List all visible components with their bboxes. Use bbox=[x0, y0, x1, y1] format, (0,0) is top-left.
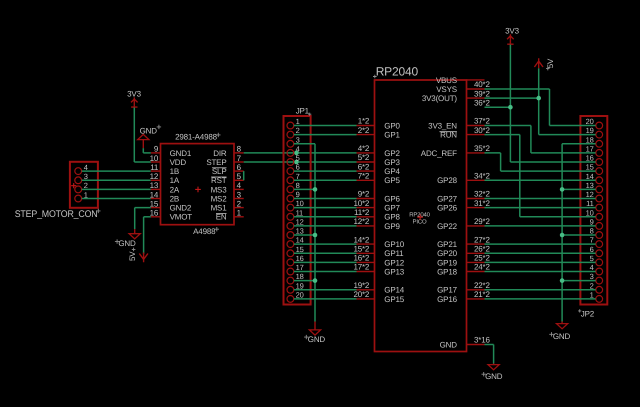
RP2040 pin GP16 bbox=[437, 295, 484, 304]
junction net 39*2 at 5V arrow bbox=[536, 96, 541, 101]
svg-text:2*2: 2*2 bbox=[358, 126, 370, 135]
svg-text:GP28: GP28 bbox=[437, 176, 457, 185]
JP1 pin 13 bbox=[287, 227, 304, 239]
svg-text:9: 9 bbox=[154, 145, 159, 154]
wire net 7*2 JP1 pin 7 to RP2040 bbox=[294, 179, 357, 181]
ground GND symbol (lower left) bbox=[115, 229, 140, 248]
svg-text:5: 5 bbox=[237, 172, 242, 181]
JP1 pin 9 bbox=[287, 190, 300, 202]
svg-text:17*2: 17*2 bbox=[353, 263, 369, 272]
JP1 pin 12 bbox=[287, 218, 304, 230]
A4988 pin 3 MS2 bbox=[211, 190, 244, 203]
svg-text:8: 8 bbox=[237, 145, 242, 154]
svg-text:VDD: VDD bbox=[170, 158, 187, 167]
svg-text:1*2: 1*2 bbox=[358, 117, 370, 126]
svg-text:4: 4 bbox=[237, 181, 242, 190]
svg-text:10: 10 bbox=[150, 154, 159, 163]
wire net 20*2 JP1 pin 20 to RP2040 bbox=[294, 298, 357, 300]
JP2 pin 14 bbox=[586, 172, 603, 184]
svg-text:14*2: 14*2 bbox=[353, 235, 369, 244]
svg-text:14: 14 bbox=[150, 190, 159, 199]
RP2040 pin GP14 bbox=[357, 286, 405, 295]
wire net 26*2 RP2040 to JP2 pin 6 bbox=[485, 252, 596, 254]
ground GND symbol (upper left) bbox=[138, 125, 161, 149]
RP2040 pin GP11 bbox=[357, 249, 405, 258]
RP2040 pin GP0 bbox=[357, 121, 401, 130]
JP2 body bbox=[580, 116, 607, 305]
svg-text:11: 11 bbox=[296, 208, 303, 217]
wire tie A4988 SLP-RST bbox=[243, 171, 245, 180]
wire net 22*2 RP2040 to JP2 pin 2 bbox=[485, 289, 596, 291]
RP2040 pin GP21 bbox=[437, 240, 484, 249]
wire net 30*2 RP2040 RUN to JP2 pin 10 bbox=[485, 135, 596, 217]
svg-text:GP9: GP9 bbox=[384, 222, 400, 231]
svg-text:40*2: 40*2 bbox=[474, 80, 490, 89]
power 3V3 supply (right) bbox=[505, 27, 519, 45]
svg-text:15*2: 15*2 bbox=[353, 245, 369, 254]
svg-text:11*2: 11*2 bbox=[354, 208, 370, 217]
wire net 17*2 JP1 pin 17 to RP2040 bbox=[294, 271, 357, 273]
junction JP1 gnd at pin 18 bbox=[313, 278, 318, 283]
svg-text:GP22: GP22 bbox=[437, 222, 457, 231]
svg-text:STEP: STEP bbox=[206, 158, 226, 167]
wire 3V3 to A4988 VDD bbox=[134, 108, 151, 163]
svg-text:RST: RST bbox=[211, 176, 227, 185]
svg-text:GND: GND bbox=[140, 127, 158, 136]
svg-text:GP18: GP18 bbox=[437, 267, 457, 276]
svg-text:25*2: 25*2 bbox=[474, 254, 490, 263]
svg-text:11: 11 bbox=[586, 199, 593, 208]
JP2 pin 1 bbox=[590, 291, 603, 303]
JP2 name bbox=[578, 309, 595, 318]
svg-text:19*2: 19*2 bbox=[353, 281, 369, 290]
svg-text:15: 15 bbox=[150, 199, 159, 208]
junction JP2 gnd at pin 3 bbox=[560, 278, 565, 283]
RP2040 pin GP2 bbox=[357, 149, 401, 158]
svg-text:3V3: 3V3 bbox=[505, 27, 519, 36]
JP2 pin 4 bbox=[590, 263, 603, 275]
wire net 40*2 RP2040 VBUS to JP2 pin 20 bbox=[485, 89, 596, 126]
A4988 pin 8 DIR bbox=[213, 145, 243, 158]
STEP_MOTOR_CON pin 1 bbox=[75, 190, 88, 202]
ground GND symbol below RP2040 bbox=[482, 364, 503, 381]
wire net 19*2 JP1 pin 19 to RP2040 bbox=[294, 289, 357, 291]
svg-text:3*16: 3*16 bbox=[474, 336, 490, 345]
svg-text:GP7: GP7 bbox=[384, 204, 400, 213]
wire net 3*16 RP2040 GND to ground bbox=[485, 345, 494, 364]
RP2040 name bbox=[373, 65, 418, 79]
svg-text:13: 13 bbox=[150, 181, 159, 190]
JP1 pin 4 bbox=[287, 145, 300, 157]
JP1 name bbox=[296, 107, 312, 116]
svg-text:STEP_MOTOR_CON: STEP_MOTOR_CON bbox=[15, 209, 98, 220]
svg-text:GP10: GP10 bbox=[384, 240, 404, 249]
JP2 pin 2 bbox=[590, 281, 603, 293]
svg-text:39*2: 39*2 bbox=[474, 89, 490, 98]
svg-text:12*2: 12*2 bbox=[353, 217, 369, 226]
junction JP1 gnd at pin 13 bbox=[313, 233, 318, 238]
svg-text:SLP: SLP bbox=[212, 167, 227, 176]
svg-text:MS1: MS1 bbox=[211, 204, 228, 213]
svg-text:GP6: GP6 bbox=[384, 194, 400, 203]
JP1 pin 16 bbox=[287, 254, 304, 266]
svg-text:GP2: GP2 bbox=[384, 149, 400, 158]
JP1 pin 2 bbox=[287, 126, 300, 138]
wire STEP_MOTOR_CON pin 2 to A4988 2A bbox=[82, 188, 151, 190]
RP2040 pin GP20 bbox=[437, 249, 484, 258]
svg-text:JP2: JP2 bbox=[581, 310, 595, 319]
RP2040 pin GP15 bbox=[357, 295, 405, 304]
wire net 34*2 RP2040 to JP2 pin 14 bbox=[485, 179, 596, 181]
JP2 pin 3 bbox=[590, 272, 603, 284]
JP2 pin 9 bbox=[590, 218, 603, 230]
wire net 27*2 RP2040 to JP2 pin 7 bbox=[485, 243, 596, 245]
svg-text:6: 6 bbox=[590, 245, 594, 254]
wire A4988 VMOT to 5V bbox=[144, 217, 151, 254]
svg-text:6*2: 6*2 bbox=[358, 162, 370, 171]
svg-text:GP19: GP19 bbox=[437, 258, 457, 267]
wire net 9*2 JP1 pin 9 to RP2040 bbox=[294, 198, 357, 200]
power 5V supply (lower left) bbox=[128, 248, 148, 263]
RP2040 pin GP7 bbox=[357, 204, 401, 213]
svg-text:3V3(OUT): 3V3(OUT) bbox=[422, 94, 458, 103]
svg-text:10: 10 bbox=[296, 199, 304, 208]
junction net 36*2 at 3V3 arrow bbox=[508, 105, 513, 110]
STEP_MOTOR_CON pin 2 bbox=[75, 181, 88, 193]
junction JP2 gnd at pin 13 bbox=[560, 187, 565, 192]
svg-text:9*2: 9*2 bbox=[358, 190, 370, 199]
svg-text:36*2: 36*2 bbox=[474, 98, 490, 107]
svg-text:DIR: DIR bbox=[213, 149, 227, 158]
STEP_MOTOR_CON pin 3 bbox=[75, 172, 88, 184]
RP2040 origin cross bbox=[409, 212, 430, 226]
svg-text:21*2: 21*2 bbox=[474, 290, 490, 299]
RP2040 pin GP18 bbox=[437, 267, 484, 276]
JP2 pin 5 bbox=[590, 254, 603, 266]
A4988 pin 2 MS1 bbox=[211, 199, 244, 212]
A4988 origin cross bbox=[195, 187, 201, 193]
svg-text:2981-A4988: 2981-A4988 bbox=[175, 133, 218, 142]
svg-text:1B: 1B bbox=[170, 167, 179, 176]
A4988 name 2981-A4988 bbox=[175, 133, 220, 142]
JP2 pin 16 bbox=[586, 154, 603, 166]
wire net 25*2 RP2040 to JP2 pin 5 bbox=[485, 261, 596, 263]
power 5V supply (right) bbox=[534, 58, 555, 70]
svg-text:GP8: GP8 bbox=[384, 213, 400, 222]
A4988 pin 5 RST bbox=[211, 172, 244, 185]
svg-text:2B: 2B bbox=[170, 194, 179, 203]
svg-text:18: 18 bbox=[586, 135, 594, 144]
svg-text:20*2: 20*2 bbox=[353, 290, 369, 299]
svg-text:GND: GND bbox=[308, 335, 326, 344]
IC U1 A4988 stepper driver bbox=[150, 133, 244, 236]
JP2 pin 8 bbox=[590, 227, 603, 239]
RP2040 pin GP3 bbox=[357, 158, 401, 167]
svg-text:GND1: GND1 bbox=[170, 149, 192, 158]
svg-text:2: 2 bbox=[296, 126, 300, 135]
svg-text:GND: GND bbox=[553, 332, 571, 341]
RP2040 pin GP13 bbox=[357, 267, 405, 276]
svg-text:VMOT: VMOT bbox=[170, 213, 193, 222]
wire net 32*2 RP2040 to JP2 pin 12 bbox=[485, 198, 596, 200]
svg-text:30*2: 30*2 bbox=[474, 126, 490, 135]
wire net 39*2 RP2040 VSYS to JP2 pin 19 and 5V bbox=[485, 68, 596, 134]
JP1 pin 1 bbox=[287, 117, 300, 129]
wire net 31*2 RP2040 to JP2 pin 11 bbox=[485, 207, 596, 209]
label STEP_MOTOR_CON bbox=[15, 209, 101, 220]
svg-text:GP27: GP27 bbox=[437, 194, 457, 203]
JP1 pin 11 bbox=[287, 208, 303, 220]
A4988 pin 15 GND2 bbox=[150, 199, 192, 212]
A4988 value A4988 bbox=[193, 227, 219, 236]
svg-text:ADC_REF: ADC_REF bbox=[421, 149, 457, 158]
JP2 pin 19 bbox=[586, 126, 603, 138]
wire net 36*2 RP2040 3V3(OUT) to JP2 pin 16 and 3V3 bbox=[485, 45, 596, 162]
wire net 1*2 JP1 pin 1 to RP2040 bbox=[294, 125, 357, 127]
wire net 29*2 RP2040 to JP2 pin 9 bbox=[485, 225, 596, 227]
A4988 pin 1 EN bbox=[216, 209, 244, 222]
svg-text:GP4: GP4 bbox=[384, 167, 400, 176]
svg-text:MS2: MS2 bbox=[211, 194, 228, 203]
RP2040 pin RUN bbox=[440, 131, 485, 140]
svg-text:16: 16 bbox=[150, 209, 159, 218]
svg-text:GND: GND bbox=[118, 239, 136, 248]
svg-text:5: 5 bbox=[296, 154, 300, 163]
JP1 pin 20 bbox=[287, 291, 304, 303]
svg-text:16*2: 16*2 bbox=[353, 254, 369, 263]
RP2040 pin GP22 bbox=[437, 222, 484, 231]
svg-text:3: 3 bbox=[296, 135, 300, 144]
svg-text:GND: GND bbox=[440, 340, 458, 349]
JP2 pin 20 bbox=[586, 117, 603, 129]
svg-text:6: 6 bbox=[296, 163, 300, 172]
wire net 10*2 JP1 pin 10 to RP2040 bbox=[294, 207, 357, 209]
power 3V3 supply (left) bbox=[127, 90, 141, 108]
svg-text:3V3_EN: 3V3_EN bbox=[428, 121, 457, 130]
svg-text:VBUS: VBUS bbox=[436, 76, 457, 85]
connector STEP_MOTOR_CON bbox=[15, 162, 101, 220]
svg-text:27*2: 27*2 bbox=[474, 235, 490, 244]
svg-text:GND: GND bbox=[485, 372, 503, 381]
wire net 6*2 JP1 pin 6 to RP2040 bbox=[294, 170, 357, 172]
JP2 pin 18 bbox=[586, 135, 603, 147]
svg-text:GP3: GP3 bbox=[384, 158, 400, 167]
svg-text:1A: 1A bbox=[170, 176, 180, 185]
wire STEP_MOTOR_CON pin 1 to A4988 2B bbox=[82, 198, 151, 200]
wire net 11*2 JP1 pin 11 to RP2040 bbox=[294, 216, 357, 218]
svg-text:GP0: GP0 bbox=[384, 121, 400, 130]
svg-text:7*2: 7*2 bbox=[358, 172, 370, 181]
IC U2 RP2040 Pico module bbox=[357, 65, 485, 352]
svg-text:10*2: 10*2 bbox=[353, 199, 369, 208]
svg-text:GP16: GP16 bbox=[437, 295, 457, 304]
wire JP2 ground bus bbox=[562, 144, 596, 322]
svg-text:GP26: GP26 bbox=[437, 204, 457, 213]
JP1 pin 18 bbox=[287, 272, 304, 284]
svg-text:7: 7 bbox=[296, 172, 300, 181]
ground GND symbol below JP1 bbox=[304, 322, 325, 344]
svg-text:MS3: MS3 bbox=[211, 185, 228, 194]
svg-text:7: 7 bbox=[590, 236, 594, 245]
junction on net 5*2 at JP1 pin 5 bbox=[294, 160, 299, 165]
svg-text:31*2: 31*2 bbox=[474, 199, 490, 208]
svg-text:29*2: 29*2 bbox=[474, 217, 490, 226]
svg-text:2: 2 bbox=[237, 199, 242, 208]
svg-text:RP2040: RP2040 bbox=[376, 65, 419, 79]
wire GND to A4988 GND1 bbox=[143, 148, 151, 153]
RP2040 pin VBUS bbox=[436, 76, 485, 85]
A4988 body bbox=[161, 144, 235, 225]
svg-text:GP14: GP14 bbox=[384, 286, 404, 295]
svg-text:EN: EN bbox=[216, 213, 227, 222]
svg-text:5V: 5V bbox=[546, 58, 555, 68]
svg-text:34*2: 34*2 bbox=[474, 172, 490, 181]
wire net 15*2 JP1 pin 15 to RP2040 bbox=[294, 252, 357, 254]
svg-text:1: 1 bbox=[237, 209, 242, 218]
wire STEP_MOTOR_CON pin 3 to A4988 1A bbox=[82, 179, 151, 181]
connector STEP_MOTOR_CON body bbox=[70, 162, 98, 208]
RP2040 pin GND bbox=[440, 340, 485, 349]
svg-text:14: 14 bbox=[586, 172, 594, 181]
svg-text:24*2: 24*2 bbox=[474, 263, 490, 272]
JP1 body bbox=[284, 116, 311, 305]
JP1 pin 7 bbox=[287, 172, 300, 184]
RP2040 pin GP19 bbox=[437, 258, 484, 267]
svg-text:10: 10 bbox=[586, 208, 594, 217]
svg-text:2A: 2A bbox=[170, 185, 180, 194]
svg-text:15: 15 bbox=[296, 245, 304, 254]
wire JP1 ground bus bbox=[294, 144, 315, 322]
wire net 12*2 JP1 pin 12 to RP2040 bbox=[294, 225, 357, 227]
ground GND symbol below JP2 bbox=[549, 322, 570, 342]
wire net 24*2 RP2040 to JP2 pin 4 bbox=[485, 271, 596, 273]
svg-text:VSYS: VSYS bbox=[436, 85, 457, 94]
RP2040 pin GP8 bbox=[357, 213, 401, 222]
svg-text:GP15: GP15 bbox=[384, 295, 404, 304]
svg-text:12: 12 bbox=[150, 172, 159, 181]
wire net 14*2 JP1 pin 14 to RP2040 bbox=[294, 243, 357, 245]
svg-text:GP5: GP5 bbox=[384, 176, 400, 185]
JP2 pin 13 bbox=[586, 181, 603, 193]
RP2040 pin GP26 bbox=[437, 204, 484, 213]
JP1 pin 3 bbox=[287, 135, 300, 147]
RP2040 pin GP6 bbox=[357, 194, 401, 203]
svg-text:22*2: 22*2 bbox=[474, 281, 490, 290]
RP2040 pin GP1 bbox=[357, 131, 401, 140]
JP2 pin 7 bbox=[590, 236, 603, 248]
svg-text:37*2: 37*2 bbox=[474, 117, 490, 126]
JP1 pin 19 bbox=[287, 281, 304, 293]
RP2040 pin 3V3_EN bbox=[428, 121, 484, 130]
svg-text:4*2: 4*2 bbox=[358, 144, 370, 153]
wire net 21*2 RP2040 to JP2 pin 1 bbox=[485, 298, 596, 300]
A4988 pin 13 2A bbox=[150, 181, 180, 194]
connector JP1 bbox=[284, 107, 312, 305]
svg-text:26*2: 26*2 bbox=[474, 245, 490, 254]
RP2040 pin GP28 bbox=[437, 176, 484, 185]
A4988 pin 11 1B bbox=[150, 163, 179, 176]
wire net 16*2 JP1 pin 16 to RP2040 bbox=[294, 261, 357, 263]
JP1 pin 5 bbox=[287, 154, 300, 166]
RP2040 pin 3V3(OUT) bbox=[422, 94, 485, 103]
RP2040 pin VSYS bbox=[436, 85, 484, 94]
RP2040 pin GP5 bbox=[357, 176, 401, 185]
RP2040 pin GP17 bbox=[437, 286, 484, 295]
connector JP2 bbox=[578, 116, 607, 319]
svg-text:GP12: GP12 bbox=[384, 258, 404, 267]
RP2040 pin GP12 bbox=[357, 258, 405, 267]
A4988 pin 16 VMOT bbox=[150, 209, 193, 222]
junction JP1 gnd at pin 8 bbox=[313, 187, 318, 192]
svg-text:GP21: GP21 bbox=[437, 240, 457, 249]
JP2 pin 10 bbox=[586, 208, 603, 220]
junction on net 4*2 at JP1 pin 4 bbox=[294, 151, 299, 156]
svg-text:A4988: A4988 bbox=[193, 227, 216, 236]
wire net 5*2 A4988 STEP to JP1 pin5 / RP2040 GP3 bbox=[244, 161, 357, 163]
svg-text:5*2: 5*2 bbox=[358, 153, 370, 162]
junction JP2 gnd at pin 8 bbox=[560, 233, 565, 238]
A4988 pin 14 2B bbox=[150, 190, 179, 203]
JP2 pin 12 bbox=[586, 190, 603, 202]
JP1 pin 17 bbox=[287, 263, 304, 275]
JP1 pin 14 bbox=[287, 236, 304, 248]
RP2040 pin ADC_REF bbox=[421, 149, 485, 158]
svg-text:32*2: 32*2 bbox=[474, 190, 490, 199]
JP2 pin 6 bbox=[590, 245, 603, 257]
wire net 4*2 A4988 DIR to JP1 pin4 / RP2040 GP2 bbox=[244, 152, 357, 154]
JP2 pin 15 bbox=[586, 163, 603, 175]
svg-text:GP17: GP17 bbox=[437, 286, 457, 295]
svg-text:6: 6 bbox=[237, 163, 242, 172]
RP2040 pin GP9 bbox=[357, 222, 401, 231]
RP2040 pin GP4 bbox=[357, 167, 401, 176]
RP2040 pin GP27 bbox=[437, 194, 484, 203]
JP1 pin 15 bbox=[287, 245, 304, 257]
JP1 pin 8 bbox=[287, 181, 300, 193]
svg-text:35*2: 35*2 bbox=[474, 144, 490, 153]
JP1 pin 6 bbox=[287, 163, 300, 175]
wire A4988 GND2 to GND (lower left) bbox=[135, 208, 151, 230]
wire net 2*2 JP1 pin 2 to RP2040 bbox=[294, 134, 357, 136]
RP2040 body bbox=[375, 80, 467, 352]
svg-text:GP11: GP11 bbox=[384, 249, 404, 258]
A4988 pin 9 GND1 bbox=[151, 145, 192, 158]
svg-text:GND2: GND2 bbox=[170, 204, 192, 213]
svg-text:GP13: GP13 bbox=[384, 267, 404, 276]
svg-text:14: 14 bbox=[296, 236, 304, 245]
A4988 pin 7 STEP bbox=[206, 154, 243, 167]
svg-text:3: 3 bbox=[237, 190, 242, 199]
JP2 pin 17 bbox=[586, 145, 603, 157]
A4988 pin 10 VDD bbox=[150, 154, 187, 167]
svg-text:11: 11 bbox=[150, 163, 159, 172]
A4988 pin 4 MS3 bbox=[211, 181, 244, 194]
RP2040 pin GP10 bbox=[357, 240, 405, 249]
svg-text:3V3: 3V3 bbox=[127, 90, 141, 99]
wire net 37*2 RP2040 3V3_EN to JP2 pin 17 bbox=[485, 126, 596, 153]
JP1 pin 10 bbox=[287, 199, 304, 211]
svg-text:15: 15 bbox=[586, 163, 594, 172]
svg-text:GP20: GP20 bbox=[437, 249, 457, 258]
wire STEP_MOTOR_CON pin 4 to A4988 1B bbox=[82, 170, 151, 172]
wire net 35*2 RP2040 ADC_REF to JP2 pin 15 bbox=[485, 153, 596, 171]
svg-text:7: 7 bbox=[237, 154, 242, 163]
A4988 pin 12 1A bbox=[150, 172, 180, 185]
svg-text:JP1: JP1 bbox=[296, 107, 310, 116]
svg-text:19: 19 bbox=[586, 126, 594, 135]
JP2 pin 11 bbox=[586, 199, 602, 211]
STEP_MOTOR_CON pin 4 bbox=[75, 163, 88, 175]
